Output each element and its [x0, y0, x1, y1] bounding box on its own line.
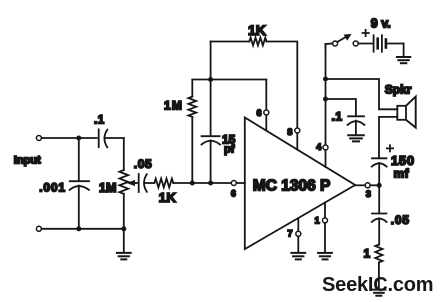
pin 7 ground: [297, 236, 299, 252]
svg-text:6: 6: [257, 108, 262, 118]
wire output: [355, 184, 365, 186]
pin 1 ground: [324, 223, 326, 253]
svg-text:1K: 1K: [159, 190, 177, 205]
svg-text:Input: Input: [14, 154, 41, 166]
ground (pot bottom): [123, 231, 125, 253]
ground (.1 cap): [348, 134, 364, 136]
svg-text:.1: .1: [94, 114, 105, 126]
node junction dot (15pf): [208, 181, 213, 186]
wiper arrow of pot: [133, 182, 139, 184]
svg-text:1K: 1K: [248, 22, 266, 38]
pin 1 open circle: [323, 218, 328, 223]
svg-text:.1: .1: [332, 110, 343, 124]
wire pin6 to triangle: [236, 182, 244, 184]
resistor R 1K input: [154, 179, 173, 188]
svg-text:6: 6: [231, 188, 236, 198]
wire upper rail to pin 6 top: [265, 80, 267, 110]
node: input top terminal: [36, 136, 41, 141]
wire speaker bottom to cap: [379, 117, 397, 158]
wire pin6top to triangle: [265, 115, 267, 130]
wire pin8 to triangle: [296, 133, 298, 150]
svg-text:SeekIC.com: SeekIC.com: [322, 274, 433, 296]
svg-text:.05: .05: [134, 157, 152, 171]
+ label 150mf: [387, 145, 393, 151]
wire pin3 to node: [370, 184, 379, 186]
capacitor C .05 output: [378, 185, 380, 213]
wire resistor to ground: [378, 262, 380, 289]
svg-text:9 v.: 9 v.: [371, 17, 391, 31]
capacitor C 150mf output: [378, 157, 380, 160]
pin 7 open circle: [296, 231, 301, 236]
potentiometer R 1M: [123, 138, 125, 170]
svg-text:.05: .05: [391, 213, 410, 227]
pin 6 top open circle: [264, 110, 269, 115]
svg-text:MC 1306 P: MC 1306 P: [253, 177, 331, 194]
svg-text:1: 1: [364, 246, 371, 260]
node junction dot bottom rail (pot): [121, 226, 126, 231]
+ label battery: [363, 30, 369, 36]
wire bottom input rail: [42, 228, 124, 230]
capacitor C .05 (wiper): [138, 174, 140, 192]
svg-text:mf: mf: [394, 167, 410, 181]
wire top rail to pin 8: [267, 42, 298, 128]
capacitor C 15pf: [210, 80, 212, 136]
svg-text:.001: .001: [39, 180, 66, 194]
svg-text:8: 8: [287, 127, 292, 137]
node junction dot supply/.1: [323, 97, 328, 102]
node junction dot top rail: [76, 136, 81, 141]
svg-text:7: 7: [288, 229, 293, 239]
svg-text:1M: 1M: [164, 98, 183, 112]
wire supply to .1 cap: [326, 99, 356, 116]
wire to pin 6 input: [173, 182, 231, 184]
resistor R 1M feedback: [191, 80, 193, 97]
node junction dot supply/speaker: [323, 77, 328, 82]
speaker SPKR: [397, 106, 406, 120]
pin 1 wire: [324, 203, 326, 218]
capacitor C .1 input (series): [98, 129, 100, 147]
wire to speaker top: [326, 79, 398, 109]
node junction dot output: [377, 183, 382, 188]
pin 6 input open circle: [231, 181, 236, 186]
resistor R 1 output: [375, 245, 382, 263]
pin 4 line from supply: [325, 44, 327, 145]
node junction dot (1M fb): [190, 181, 195, 186]
switch S1: [326, 43, 333, 46]
capacitor C .001 shunt: [78, 138, 80, 180]
wire top feedback rail: [211, 41, 250, 43]
resistor R 1K feedback: [249, 38, 266, 46]
wire upper feedback rail: [192, 79, 266, 81]
svg-text:1: 1: [315, 215, 320, 225]
pin 7 wire: [297, 218, 299, 231]
pin 8 open circle: [295, 128, 300, 133]
wire vertical to 1K feedback: [210, 42, 212, 80]
wire supply down-rail corner: [325, 44, 327, 48]
node junction dot upper rail: [208, 77, 213, 82]
ground (output): [372, 289, 385, 291]
svg-text:pf: pf: [224, 144, 235, 156]
svg-text:1M: 1M: [99, 181, 116, 195]
op-amp U1 triangle MC1306P: [245, 118, 355, 250]
node: input bottom terminal: [36, 226, 41, 231]
pin 4 open circle: [323, 145, 328, 150]
svg-text:3: 3: [366, 189, 371, 199]
node junction dot bottom rail (cap): [76, 226, 81, 231]
svg-text:4: 4: [316, 142, 321, 152]
wire pin4 to triangle: [325, 150, 327, 167]
ground (battery): [403, 44, 405, 57]
pin 3 open circle: [365, 183, 370, 188]
battery B1 9v: [358, 43, 372, 45]
wire top input rail: [42, 137, 97, 139]
capacitor C .1 supply bypass: [348, 115, 364, 117]
svg-text:Spkr: Spkr: [385, 83, 412, 97]
